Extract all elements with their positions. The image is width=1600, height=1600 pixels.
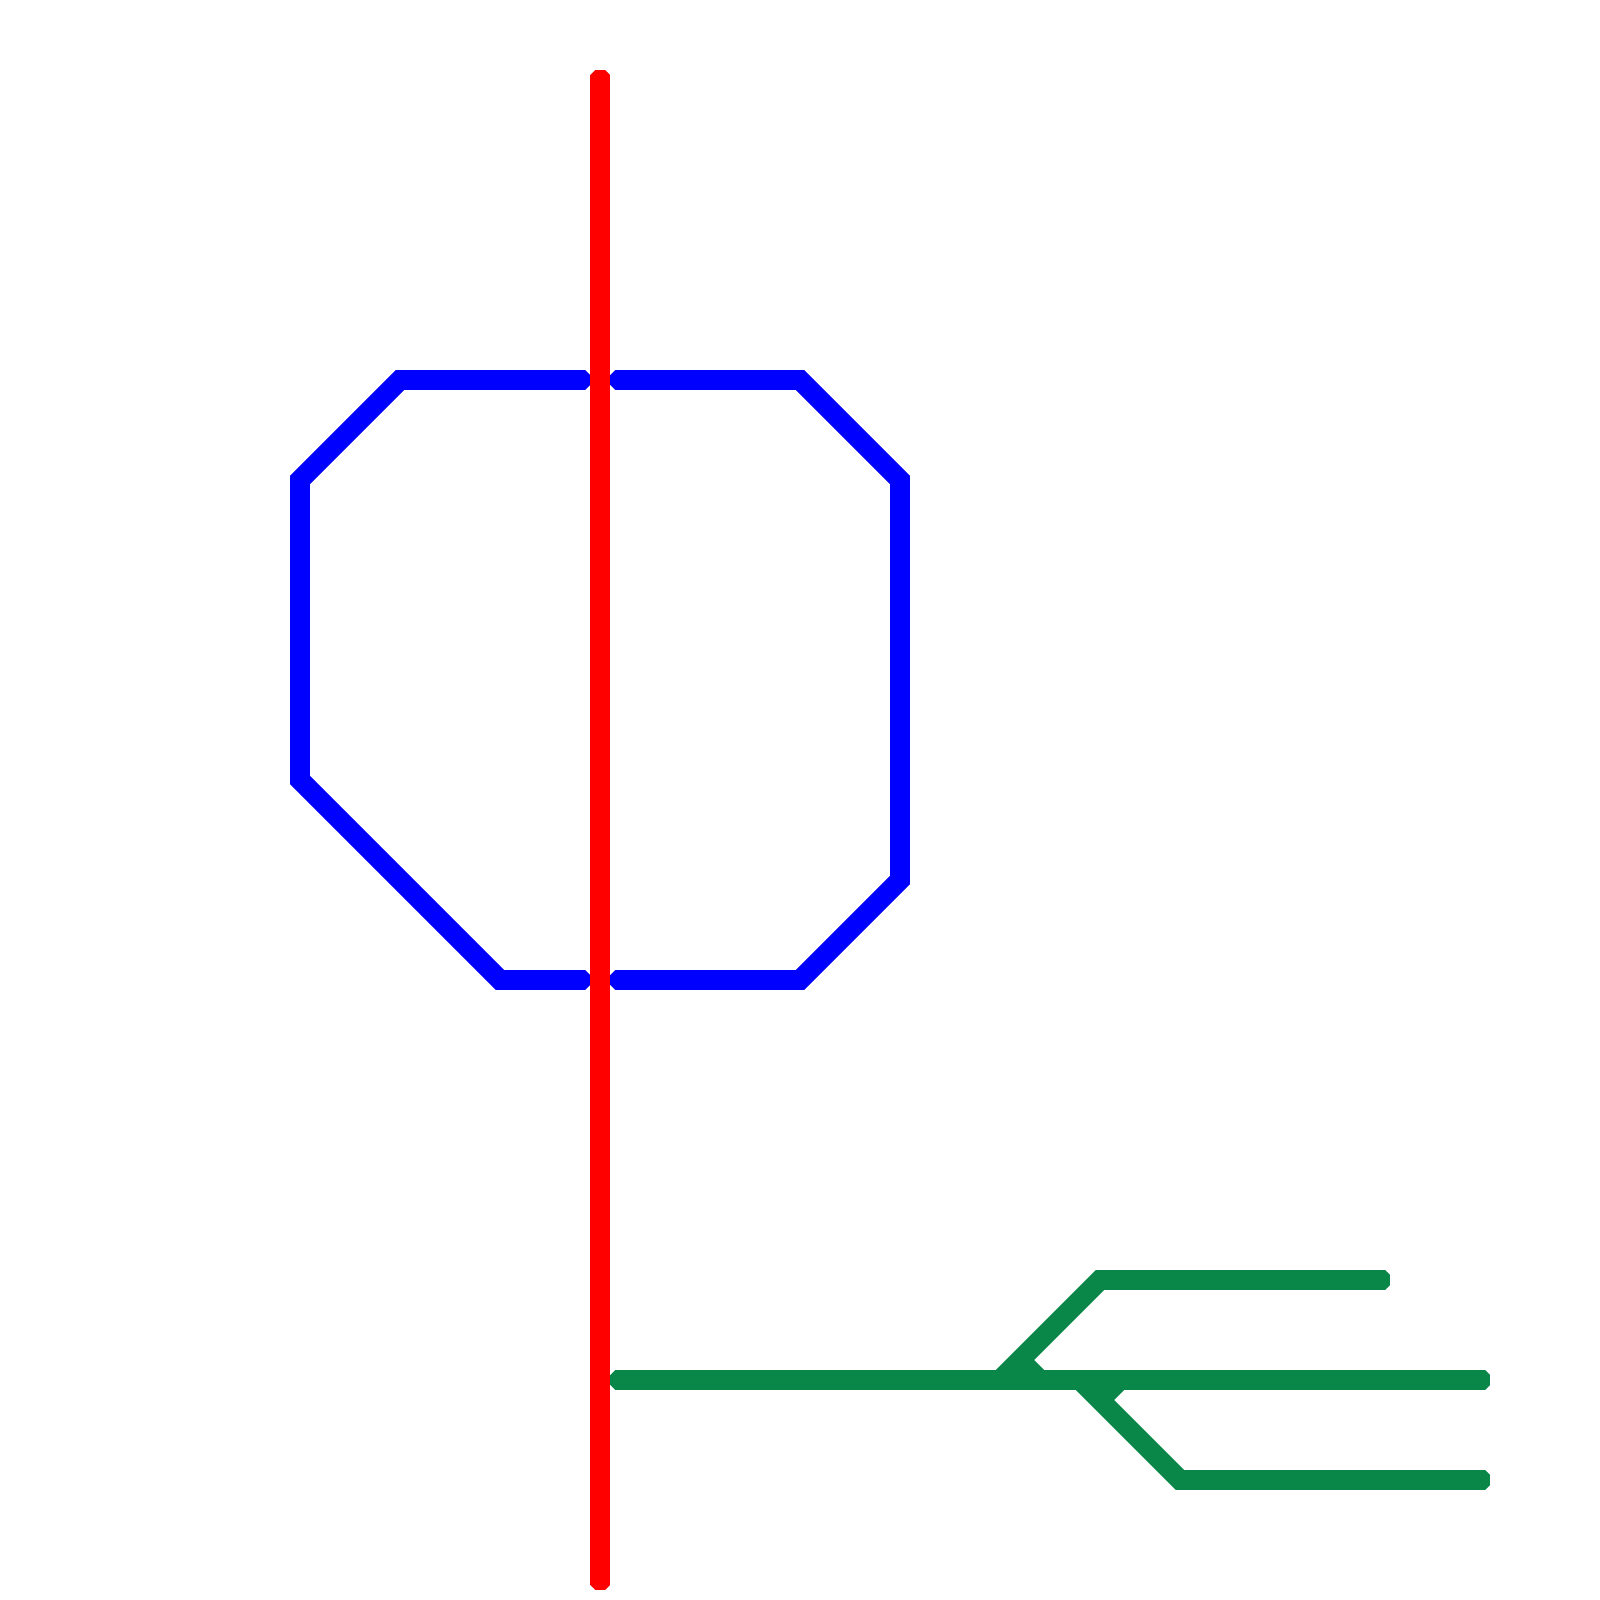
green stub at lower junction bbox=[1100, 1380, 1120, 1400]
green stub lower start cap (hidden) bbox=[1090, 1390, 1110, 1410]
octagon right half bottom end cap bbox=[610, 970, 630, 990]
green stub upper end cap (hidden) bbox=[1030, 1370, 1050, 1390]
red vertical line bbox=[590, 80, 610, 1580]
octagon left half bottom end cap bbox=[570, 970, 590, 990]
green lower branch start cap (hidden under main line) bbox=[1070, 1370, 1090, 1390]
green upper branch bbox=[1000, 1280, 1380, 1380]
green lower branch bbox=[1080, 1380, 1480, 1480]
octagon left half top end cap bbox=[570, 370, 590, 390]
green lower branch end cap (lower prong tip) bbox=[1470, 1470, 1490, 1490]
green upper branch start cap (hidden under main line) bbox=[990, 1370, 1010, 1390]
green upper branch end cap (upper prong tip) bbox=[1370, 1270, 1390, 1290]
green main line left cap bbox=[610, 1370, 630, 1390]
green main horizontal line bbox=[620, 1370, 1480, 1390]
red line top cap bbox=[590, 70, 610, 90]
octagon right half (blue polyline) bbox=[620, 380, 900, 980]
green stub lower end cap (hidden) bbox=[1110, 1370, 1130, 1390]
octagon left half (blue polyline) bbox=[300, 380, 580, 980]
red line bottom cap bbox=[590, 1570, 610, 1590]
green main line right cap (middle prong tip) bbox=[1470, 1370, 1490, 1390]
green stub upper start cap (hidden) bbox=[1010, 1350, 1030, 1370]
green stub at upper junction bbox=[1020, 1360, 1040, 1380]
octagon right half top end cap bbox=[610, 370, 630, 390]
